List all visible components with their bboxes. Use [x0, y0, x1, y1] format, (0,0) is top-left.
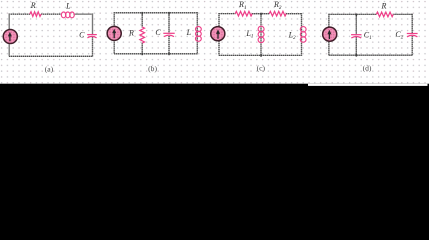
black strip bottom — [0, 84, 429, 112]
wire left edge (b) — [113, 12, 115, 54]
wire left edge (d) — [328, 14, 330, 55]
wire left edge (c) — [218, 13, 220, 55]
resistor R2 (c) — [269, 11, 286, 16]
wire C branch lower (b) — [168, 36, 170, 54]
current source (c) — [211, 27, 225, 41]
resistor R (d) — [376, 12, 393, 17]
resistor R (b) — [140, 27, 145, 43]
wire right edge (d) upper — [411, 14, 413, 34]
wire left edge (a) — [8, 14, 10, 57]
svg-text:(d): (d) — [363, 63, 372, 72]
junction ticks (b) — [142, 12, 170, 55]
wire L1 branch (c) — [260, 14, 262, 56]
svg-text:R: R — [380, 1, 386, 10]
wire bottom (c) — [219, 54, 302, 56]
svg-text:R: R — [30, 1, 36, 10]
wire bottom (b) — [114, 53, 197, 55]
inductor L2 (c) — [300, 27, 306, 43]
resistor R (a) — [30, 12, 41, 17]
inductor L (a) — [61, 12, 74, 18]
resistor R1 (c) — [235, 11, 252, 16]
junction ticks (d) — [356, 14, 358, 57]
wire right edge (a) lower — [92, 37, 94, 57]
wire right edge (c) — [301, 13, 303, 56]
capacitor C1 (d) — [351, 35, 361, 38]
wire top (d): R to right corner — [393, 13, 413, 15]
white ledge bottom right — [308, 84, 428, 86]
wire C1 branch lower (d) — [355, 37, 357, 55]
svg-text:C: C — [79, 31, 85, 40]
inductor L1 (c) — [258, 26, 264, 42]
current source (a) — [3, 29, 17, 43]
svg-text:(a): (a) — [45, 65, 54, 74]
svg-text:C: C — [155, 28, 161, 37]
wire R branch lower (b) — [141, 43, 143, 54]
wire R branch upper (b) — [141, 13, 143, 28]
capacitor C (a) — [87, 35, 97, 38]
wire top (c): R1 to R2 — [252, 13, 270, 15]
wire C1 branch upper (d) — [355, 14, 357, 34]
junction ticks (c) — [260, 13, 262, 57]
svg-text:L: L — [186, 28, 192, 37]
paper background with halftone dots — [0, 0, 429, 86]
inductor L (b) — [196, 27, 202, 42]
svg-text:R: R — [128, 28, 134, 37]
wire top (c): left corner to R1 — [219, 13, 236, 15]
svg-text:(c): (c) — [257, 63, 266, 72]
wire top (c): R2 to right corner — [286, 13, 302, 15]
wire top (a): L to top-right corner — [74, 13, 93, 15]
capacitor C2 (d) — [407, 34, 418, 37]
current source (b) — [107, 26, 121, 40]
wire bottom (d) — [329, 54, 413, 56]
wire top (d): left corner to R — [329, 13, 377, 15]
wire bottom (a) — [9, 55, 93, 57]
svg-text:(b): (b) — [148, 64, 157, 73]
capacitor C (b) — [163, 33, 174, 36]
wire top (a): R to L — [41, 13, 62, 15]
wire right edge (b) — [196, 12, 198, 54]
wire C branch upper (b) — [168, 13, 170, 33]
wire top (b) — [114, 12, 197, 14]
svg-text:L: L — [65, 1, 71, 10]
wire right edge (a) upper — [92, 14, 94, 35]
wire right edge (d) lower — [411, 36, 413, 56]
wire top (a): left corner to R — [9, 13, 30, 15]
current source (d) — [323, 27, 337, 41]
